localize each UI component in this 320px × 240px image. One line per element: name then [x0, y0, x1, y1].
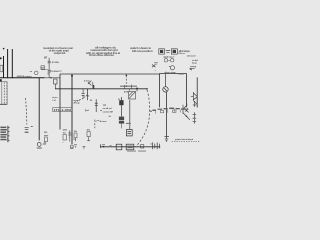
Q3 node dot	[186, 116, 187, 117]
motor leads	[169, 65, 171, 68]
indicator box P2	[171, 49, 177, 54]
lamp circles pair	[164, 59, 167, 62]
wire into Q1	[165, 74, 167, 87]
ground mark small 2	[102, 145, 105, 148]
node at arc start	[146, 88, 147, 89]
svg-text:ohm: ohm	[44, 135, 48, 137]
node junction x137	[136, 88, 138, 90]
svg-text:driver stage: driver stage	[164, 71, 176, 74]
text block C top	[130, 46, 153, 53]
wire bus vertical 3	[11, 49, 13, 78]
tick on y89 wire	[92, 87, 94, 89]
transistor Q1 internals	[164, 88, 167, 91]
tick cluster under C2	[47, 73, 49, 74]
svg-text:control 1M: control 1M	[103, 110, 113, 113]
node dot mid	[93, 85, 95, 87]
flag mark right	[189, 68, 192, 70]
stub tick bottom bus	[100, 144, 102, 148]
svg-text:2N301A output: 2N301A output	[17, 75, 32, 78]
capacitor C-cable polarized	[25, 126, 33, 129]
fuse box inner	[127, 146, 132, 149]
jack at bottom of x72	[70, 145, 73, 148]
svg-text:full ccw position: full ccw position	[132, 49, 153, 53]
dashed control line with arrow	[125, 76, 127, 89]
motor M1 circle	[170, 66, 174, 70]
capacitor C1 bars	[48, 61, 51, 63]
extra caps row dashes left	[150, 109, 188, 112]
extra strokes right transistor	[193, 101, 197, 107]
wire bus vertical 1	[3, 56, 5, 78]
wire below K1 pair	[121, 124, 123, 129]
dashed cable run left	[26, 98, 27, 125]
label under lamp	[37, 147, 42, 148]
switch inner marks	[127, 131, 131, 132]
svg-text:5k tone: 5k tone	[99, 120, 107, 123]
branch x96	[95, 99, 97, 112]
svg-text:z: z	[85, 109, 86, 111]
wire vertical x39.6	[38, 78, 40, 141]
svg-text:of amp: of amp	[73, 102, 80, 104]
text cluster mid right	[103, 108, 113, 114]
wire vertical x166.5 below Q1	[165, 92, 167, 136]
battery cluster bottom right	[152, 142, 159, 149]
svg-text:output bd: output bd	[54, 51, 66, 55]
wire vertical x72	[71, 74, 73, 144]
transformer dashed winding 1	[3, 82, 5, 104]
connector J1 rows	[0, 127, 6, 141]
wire transformer bottom	[0, 103, 7, 105]
svg-text:k1: k1	[118, 99, 120, 101]
indicator box P1	[159, 49, 165, 54]
text rows near x72 right	[73, 99, 81, 105]
svg-text:6.3v ea: 6.3v ea	[178, 53, 185, 55]
fuse box F1	[116, 144, 122, 150]
resistor R-left drop box	[54, 79, 57, 84]
text block A top	[43, 46, 74, 59]
transistor Q3 cluster	[183, 103, 190, 119]
IC U1 hatched box	[129, 91, 136, 99]
connector J1 left edge	[7, 126, 9, 143]
svg-text:lamp asm: lamp asm	[164, 56, 173, 58]
dashes top right of cluster	[154, 62, 158, 64]
small comp left of C2	[41, 66, 45, 70]
capacitor C4 bars	[95, 103, 98, 105]
node junction x51	[50, 77, 51, 78]
capacitor C3 bars	[82, 93, 85, 95]
wire horizontal top y74	[60, 73, 160, 75]
dashes branch x95 lower	[93, 120, 96, 129]
capacitor row under amp box	[152, 108, 185, 111]
ground mark under column C	[74, 145, 77, 148]
circle comp small	[34, 71, 38, 75]
transistor mid cluster	[88, 81, 93, 88]
dashed feedback arc	[136, 90, 150, 147]
node dot top-left	[3, 48, 5, 50]
part number label row	[53, 108, 72, 112]
wire vertical x60	[59, 74, 61, 130]
wire resistor drop	[54, 84, 56, 89]
diode stack right edge	[193, 112, 197, 124]
wire cap C1	[48, 58, 50, 62]
connector stub left edge upper	[0, 57, 2, 59]
capacitor row boxes	[160, 110, 163, 112]
svg-text:7 of: 7 of	[52, 100, 56, 102]
small comp on bottom bus	[141, 145, 144, 148]
small box left edge	[0, 65, 3, 72]
node junction x72	[71, 75, 73, 77]
svg-text:to pin: to pin	[52, 96, 58, 99]
wire horizontal mid y88.8	[55, 88, 147, 90]
text rows upper x52	[52, 96, 58, 102]
wire vertical right x197.2	[196, 77, 198, 107]
svg-text:.01 600v: .01 600v	[51, 62, 60, 64]
arrow label 5k	[95, 120, 99, 121]
svg-text:117vac unless otherwise: 117vac unless otherwise	[89, 53, 114, 57]
relay K1 dark box	[119, 100, 123, 105]
wire bus vertical 2	[7, 49, 9, 78]
wire bottom bus y146.8	[101, 146, 161, 148]
connector J1 pin ticks	[8, 127, 10, 140]
svg-text:output: output	[178, 73, 185, 76]
lamp DS1 bottom of x39.6	[37, 143, 41, 147]
component column A	[44, 132, 48, 137]
svg-text:1TL-1-053: 1TL-1-053	[53, 108, 71, 112]
dash row right of C2	[59, 70, 62, 73]
wire horizontal short y86	[120, 85, 137, 87]
svg-text:.01 600v: .01 600v	[51, 71, 60, 73]
transformer box left	[2, 82, 7, 105]
text block B top	[85, 46, 120, 58]
wire vertical x129.8	[129, 100, 131, 129]
amplifier big box	[160, 74, 187, 108]
svg-text:lamp: lamp	[192, 62, 197, 64]
thermistor bottom symbol	[164, 136, 169, 141]
link between pilot boxes	[166, 50, 171, 53]
wire vertical x121.6	[121, 97, 123, 117]
label near x129.8	[126, 123, 131, 124]
svg-text:dial cord: dial cord	[187, 56, 196, 58]
text right mid 1	[190, 59, 198, 70]
wire stub x87.6	[87, 89, 89, 100]
fuse box F2	[126, 144, 134, 150]
wire drop x137	[136, 88, 138, 91]
tick below y89 wire	[129, 89, 131, 91]
svg-text:5%: 5%	[44, 142, 47, 144]
svg-text:z: z	[155, 70, 156, 72]
dashes under fuse row	[127, 150, 146, 153]
wire cap C3	[82, 89, 84, 94]
component column C	[74, 131, 78, 133]
svg-text:6.3vac: 6.3vac	[84, 80, 91, 82]
transformer dashed winding 2	[6, 82, 8, 104]
terminal block pair	[119, 117, 124, 120]
dashed route from y89 wire to x72	[74, 90, 88, 103]
svg-text:printed circuit board: printed circuit board	[175, 138, 194, 141]
wire cap C2	[48, 72, 50, 78]
short lead under 164	[42, 68, 48, 70]
ground mark small	[82, 146, 85, 149]
dashes near vol control	[100, 105, 111, 117]
transistor Q2 cluster right edge	[191, 92, 197, 101]
wire horizontal bus y78	[0, 77, 45, 79]
caps row lead ticks	[156, 109, 181, 113]
component column B	[63, 130, 68, 135]
arrowhead control line	[125, 74, 127, 76]
dashed note row bottom right	[172, 140, 200, 142]
svg-text:on-off vol: on-off vol	[103, 108, 112, 110]
capacitor C2 bars	[48, 70, 51, 72]
component column D	[87, 128, 91, 131]
switch X mark	[152, 64, 155, 67]
transistor Q1 circle	[163, 87, 168, 92]
switch box S1	[126, 130, 132, 136]
lamp wiring marks	[164, 57, 174, 61]
connector stub left edge lower	[0, 79, 2, 82]
